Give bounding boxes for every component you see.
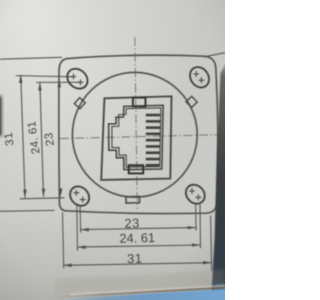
centerline vertical (dash-dot) xyxy=(135,37,138,209)
dimension line 24.61 bottom xyxy=(77,245,200,247)
dimension line 31 bottom xyxy=(64,263,212,266)
RJ45 outer square xyxy=(101,96,171,180)
arrow 24.61 top xyxy=(38,82,42,90)
dimension line 23 bottom xyxy=(81,228,196,230)
arrow 23 bottom-left xyxy=(81,228,89,232)
arrow 24.61 bottom-left xyxy=(77,245,85,249)
circle (D-hole) xyxy=(72,72,197,197)
RJ45 cavity profile outer xyxy=(109,105,164,169)
arrow 23-left bottom xyxy=(59,188,63,196)
cross marks top-right xyxy=(193,71,204,83)
screw hole bottom-right xyxy=(182,181,209,208)
photo artifact: brown table edge line xyxy=(48,288,228,298)
dimension line 31 vertical xyxy=(21,75,25,198)
extension v bottom 24.61-left xyxy=(76,206,79,251)
bottom shield slot xyxy=(129,165,143,173)
screw hole top-right xyxy=(186,63,213,91)
arrow 31 bottom-right xyxy=(203,261,211,264)
photo artifact: dark blob left edge xyxy=(0,96,2,136)
extension line flange-bottom left xyxy=(0,209,55,212)
extension v bottom 23-right xyxy=(195,204,198,231)
photo artifact: vignette xyxy=(0,0,225,300)
flange outline xyxy=(59,55,218,213)
extension line bottom screw (left bottom) xyxy=(20,198,65,199)
photo artifact: table edge highlight xyxy=(70,286,228,295)
arrow 31 bottom xyxy=(23,190,27,198)
paper background xyxy=(0,0,225,300)
arrow 31 top xyxy=(19,75,23,83)
cross marks bottom-right xyxy=(189,188,201,200)
centerline horizontal (dash-dot) xyxy=(60,135,223,139)
photo artifact: film grain xyxy=(0,0,225,300)
extension v bottom 23-left xyxy=(79,207,82,233)
cross marks top-left xyxy=(71,74,84,86)
screw hole top-left xyxy=(63,65,91,93)
extension line screw lower cross (23 top) xyxy=(36,81,80,83)
screw hole bottom-left xyxy=(66,183,93,210)
arrow 23-left top (on flange edge line) xyxy=(57,79,61,87)
arrow 23 bottom-right xyxy=(188,226,196,229)
latch tab upper-left xyxy=(74,98,85,109)
RJ45 contact pins comb xyxy=(146,114,160,167)
extension line flange-top right xyxy=(204,53,226,57)
photo artifact: dark strip right edge xyxy=(211,54,231,300)
RJ45 cavity profile inner xyxy=(112,108,161,167)
arrow 24.61 bottom xyxy=(42,189,46,197)
photo artifact: blue band bottom xyxy=(58,289,229,300)
latch tab upper-right xyxy=(186,96,197,107)
arrow 24.61 bottom-right xyxy=(192,243,200,246)
extension v bottom 24.61-right xyxy=(199,205,202,249)
cross marks bottom-left xyxy=(73,190,85,203)
arrow 31 bottom-left xyxy=(64,264,72,268)
extension v bottom 31-right xyxy=(211,216,212,272)
photo artifact: pre-edge shadow band xyxy=(55,269,225,295)
extension v bottom 31-left xyxy=(63,213,64,269)
photo artifact: dark navy corner bottom-right xyxy=(214,284,229,300)
bottom tab on circle xyxy=(126,196,140,203)
extension line flange-top left xyxy=(0,57,62,59)
extension line screw upper cross (24.61 top) xyxy=(16,76,74,77)
top shield slot xyxy=(133,98,146,107)
dimension line 24.61 vertical xyxy=(40,82,44,196)
